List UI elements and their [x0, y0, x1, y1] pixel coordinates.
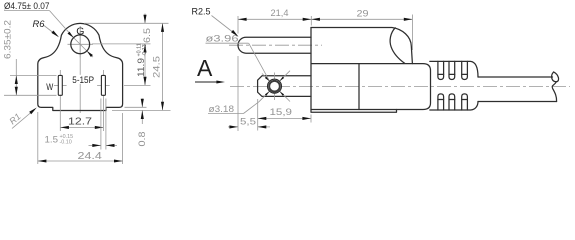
label R6 leader	[44, 26, 58, 37]
dim 6.35 extension lines	[10, 74, 57, 76]
pin dia arrows	[265, 77, 270, 82]
left slot	[59, 70, 61, 131]
nose contour curve	[390, 28, 405, 64]
ext line hole center	[92, 43, 151, 45]
blade centerline	[229, 44, 322, 46]
svg-text:5,5: 5,5	[240, 117, 256, 127]
centerline vertical of face	[79, 26, 81, 113]
label 5-15P	[71, 75, 95, 84]
svg-text:29: 29	[357, 8, 369, 18]
svg-text:24.5: 24.5	[152, 56, 162, 78]
svg-text:ø3.96: ø3.96	[206, 34, 239, 45]
ext line dome top	[84, 22, 169, 24]
ground hole G	[71, 35, 90, 54]
svg-text:R2.5: R2.5	[192, 7, 211, 17]
dim 5,5	[237, 56, 239, 131]
plug face outline	[38, 23, 123, 110]
ground pin side view	[258, 76, 311, 97]
body outline	[311, 28, 412, 64]
dim 24.4	[37, 112, 39, 164]
label dia 3.96	[206, 42, 249, 44]
strain relief	[430, 61, 478, 77]
svg-text:R6: R6	[33, 19, 46, 30]
svg-text:11.9: 11.9	[136, 58, 146, 77]
ground hole diagonal	[73, 37, 94, 58]
svg-text:12.7: 12.7	[68, 116, 92, 127]
label R2.5 leader	[212, 16, 237, 36]
blade side view	[238, 37, 311, 53]
dim 1.5	[100, 99, 102, 150]
svg-text:1.5: 1.5	[45, 135, 59, 145]
label R1 leader	[12, 110, 35, 129]
pin crosshair vertical	[274, 73, 276, 101]
body lower block	[311, 28, 431, 113]
internal parting line	[358, 64, 360, 110]
right slot	[102, 70, 104, 131]
dim 24.5	[162, 23, 164, 110]
rib slots bottom row	[438, 94, 444, 110]
svg-text:G: G	[76, 26, 84, 38]
ground hole crosshair	[68, 43, 94, 45]
svg-text:W: W	[46, 82, 53, 93]
pin circle ring	[269, 81, 280, 92]
dim 21,4 and 29	[237, 16, 239, 34]
svg-text:ø3.18: ø3.18	[209, 104, 235, 115]
cable	[478, 76, 553, 78]
svg-text:6.35±0.2: 6.35±0.2	[3, 20, 13, 59]
svg-text:Ø4.75± 0.07: Ø4.75± 0.07	[4, 1, 50, 12]
internal bottom edge	[311, 109, 397, 111]
dim 12.7	[65, 115, 95, 126]
dim Ø4.75±0.07 leader	[4, 10, 50, 12]
rib slots top row	[438, 61, 444, 79]
cable break	[552, 72, 559, 82]
svg-text:5-15P: 5-15P	[72, 75, 94, 86]
svg-text:15,9: 15,9	[270, 107, 293, 117]
svg-text:-0.13: -0.13	[142, 44, 148, 56]
dia 4.75 opposite arrow	[87, 51, 93, 57]
pin diagonals	[249, 43, 270, 81]
label dia 3.18	[208, 113, 244, 115]
ext line slot center	[124, 84, 151, 86]
svg-text:6.5: 6.5	[142, 28, 152, 43]
pin circle outer	[268, 79, 282, 93]
main centerline	[230, 86, 570, 88]
A view arrow	[195, 81, 220, 83]
svg-text:A: A	[197, 55, 213, 81]
svg-text:0.8: 0.8	[137, 132, 147, 147]
dim 15,9	[257, 99, 259, 131]
svg-text:-0.10: -0.10	[60, 139, 72, 145]
svg-text:24.4: 24.4	[78, 151, 103, 162]
dim 6.35 line	[15, 59, 17, 95]
dim 6.5	[144, 14, 146, 24]
dim 0.8	[125, 106, 147, 108]
dim 11.9	[144, 44, 146, 86]
svg-text:21,4: 21,4	[271, 8, 289, 18]
